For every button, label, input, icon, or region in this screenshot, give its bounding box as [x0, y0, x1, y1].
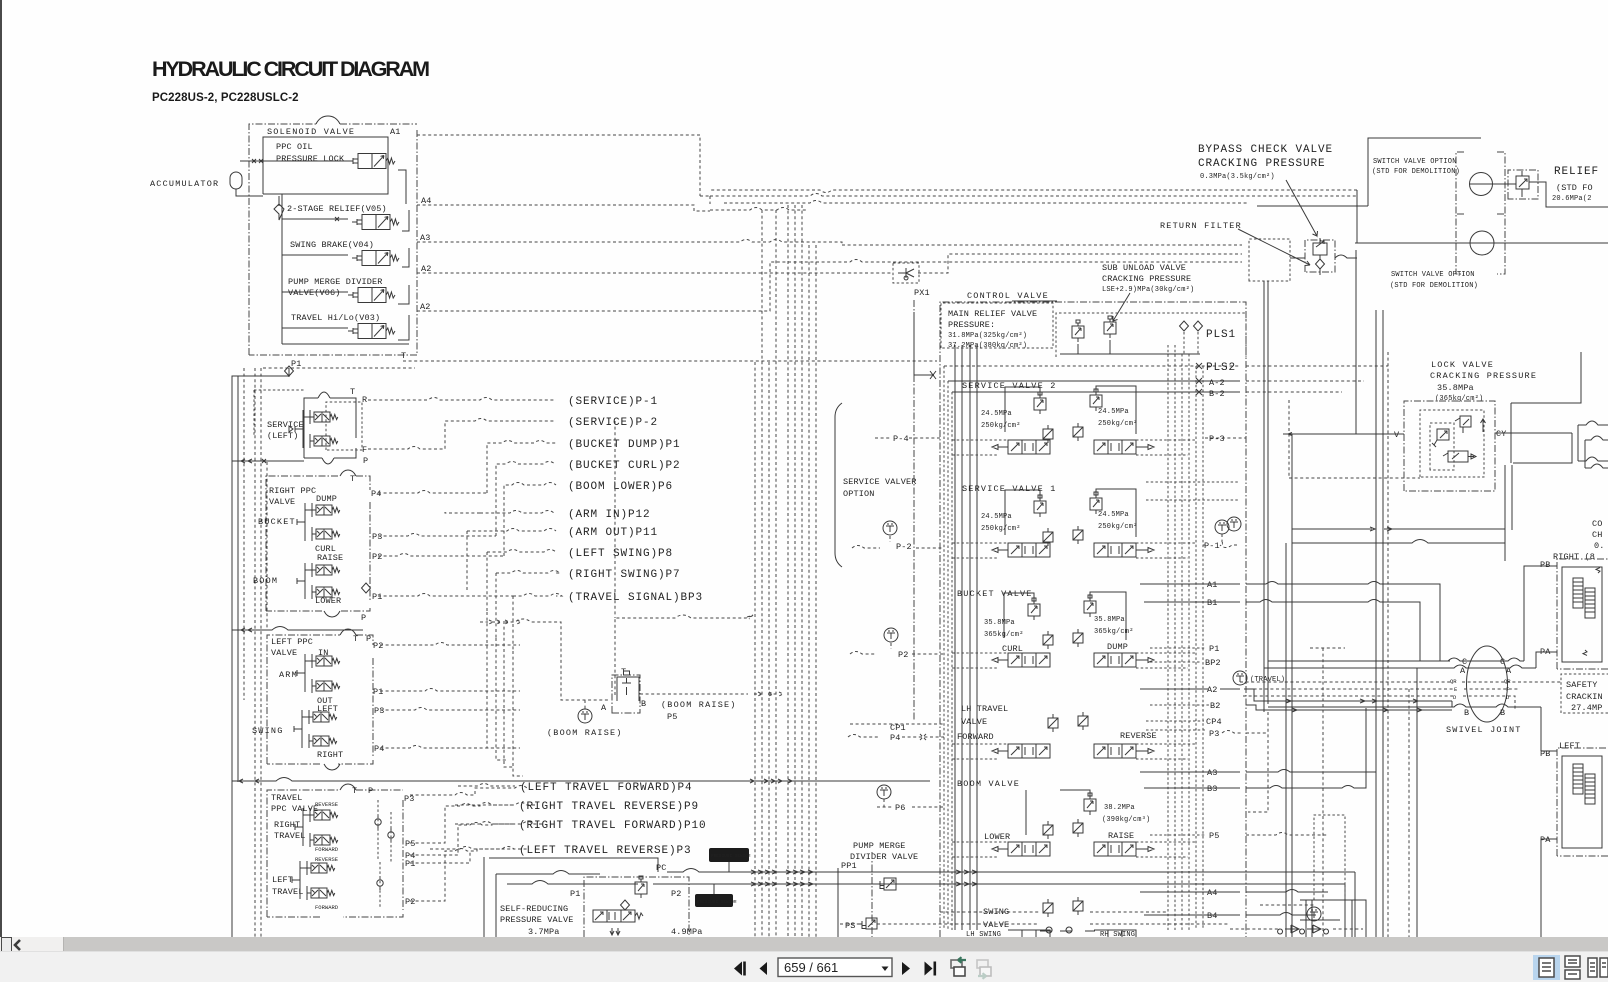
- svg-text:LEFT: LEFT: [1559, 741, 1580, 751]
- svg-text:REVERSE: REVERSE: [315, 801, 339, 808]
- svg-text:PRESSURE LOCK: PRESSURE LOCK: [276, 154, 345, 164]
- wire boom raise top lead: [615, 615, 753, 695]
- lock valve assembly: [1394, 401, 1507, 491]
- page number combobox: [778, 958, 892, 977]
- wire left swing staircase: [487, 550, 556, 613]
- wire swivel lines: [1268, 566, 1557, 661]
- ppc pair bucket curl: [312, 527, 340, 541]
- svg-text:P: P: [366, 634, 371, 644]
- svg-text:D: D: [1506, 694, 1510, 701]
- svg-text:R: R: [362, 395, 367, 405]
- lever arm: [297, 654, 312, 692]
- svg-text:DUMP: DUMP: [316, 494, 337, 504]
- svg-text:CO: CO: [1592, 519, 1603, 529]
- svg-text:P6: P6: [895, 803, 906, 813]
- svg-text:PX1: PX1: [914, 288, 930, 298]
- horizontal scrollbar: [0, 937, 1608, 951]
- wire CP1 lead: [850, 723, 944, 725]
- svg-text:CRACKIN: CRACKIN: [1566, 692, 1603, 702]
- svg-text:F: F: [362, 445, 367, 455]
- continuous layout icon: [1565, 956, 1580, 979]
- svg-text:BYPASS CHECK VALVE: BYPASS CHECK VALVE: [1198, 144, 1333, 156]
- bypass check valve note: [1198, 144, 1333, 236]
- svg-text:(BUCKET DUMP)P1: (BUCKET DUMP)P1: [568, 439, 681, 451]
- svg-text:LH TRAVEL: LH TRAVEL: [961, 704, 1008, 714]
- svg-text:4.9MPa: 4.9MPa: [671, 927, 703, 937]
- svg-text:TRAVEL Hi/Lo(V03): TRAVEL Hi/Lo(V03): [291, 313, 380, 323]
- svg-text:(BOOM RAISE): (BOOM RAISE): [661, 700, 737, 710]
- svg-text:LSE+2.9)MPa(30kg/cm²): LSE+2.9)MPa(30kg/cm²): [1102, 286, 1194, 294]
- svg-text:RIGHT PPC: RIGHT PPC: [269, 486, 316, 496]
- svg-text:RETURN FILTER: RETURN FILTER: [1160, 221, 1242, 231]
- svg-text:T: T: [350, 387, 355, 397]
- ppc pair right travel rev: [310, 808, 338, 822]
- unload valve cluster: [1056, 313, 1246, 357]
- accumulator: [150, 172, 263, 196]
- svg-text:TRAVEL: TRAVEL: [274, 831, 306, 841]
- svg-text:T: T: [350, 474, 355, 484]
- svg-text:LEFT: LEFT: [272, 875, 293, 885]
- svg-text:SERVICE VALVER: SERVICE VALVER: [843, 477, 917, 487]
- svg-text:FORWARD: FORWARD: [315, 904, 339, 911]
- svg-text:VALVE(V06): VALVE(V06): [288, 288, 341, 298]
- solenoid valve V07 PPC oil pressure lock: [348, 154, 395, 169]
- svg-text:(ARM IN)P12: (ARM IN)P12: [568, 509, 651, 521]
- valve on A2 line: [893, 263, 919, 283]
- svg-text:PLS2: PLS2: [1206, 362, 1236, 374]
- svg-text:(SERVICE)P-2: (SERVICE)P-2: [568, 417, 658, 429]
- svg-text:CY: CY: [1496, 429, 1507, 439]
- svg-text:PRESSURE SENSOR: PRESSURE SENSOR: [697, 900, 737, 905]
- wire bottom cluster to right: [1244, 689, 1376, 788]
- wire left travel fwd lead: [458, 784, 515, 787]
- svg-text:(STD FOR DEMOLITION): (STD FOR DEMOLITION): [1390, 282, 1478, 290]
- svg-text:P2: P2: [671, 889, 682, 899]
- svg-text:QR: QR: [1450, 678, 1457, 685]
- wire T bus: [263, 361, 937, 368]
- wire left travel rev lead: [430, 847, 515, 850]
- wire travel P4 lead: [410, 822, 544, 856]
- wire verticals to bottom right: [1408, 689, 1410, 937]
- svg-text:31.8MPa(325kg/cm²): 31.8MPa(325kg/cm²): [948, 332, 1027, 340]
- switch valve option 2: [1355, 214, 1608, 290]
- svg-text:P4: P4: [374, 744, 385, 754]
- wire valve outputs to port column: [282, 170, 409, 344]
- wire right travel rev lead: [455, 803, 515, 806]
- wire boom lower staircase: [504, 483, 556, 557]
- wire left ppc P3 lead: [380, 708, 520, 711]
- wire top right verticals: [1264, 190, 1383, 937]
- svg-text:CP4: CP4: [1206, 717, 1222, 727]
- svg-text:PB: PB: [1540, 749, 1551, 759]
- wire travel P1 lead: [410, 851, 470, 863]
- svg-text:SWING BRAKE(V04): SWING BRAKE(V04): [290, 240, 374, 250]
- lock valve note: [1430, 360, 1537, 403]
- svg-text:A3: A3: [1207, 768, 1218, 778]
- svg-text:LOCK VALVE: LOCK VALVE: [1431, 360, 1494, 370]
- wire solenoid internal rail: [282, 194, 348, 344]
- svg-text:RAISE: RAISE: [317, 553, 343, 563]
- lever service left: [289, 410, 310, 448]
- svg-text:P5: P5: [1209, 831, 1220, 841]
- svg-text:PC228US-2, PC228USLC-2: PC228US-2, PC228USLC-2: [152, 92, 299, 104]
- svg-text:SOLENOID VALVE: SOLENOID VALVE: [267, 127, 355, 137]
- svg-text:MAIN RELIEF VALVE: MAIN RELIEF VALVE: [948, 309, 1037, 319]
- node CO CH cut labels: [1592, 519, 1605, 551]
- service valve 1: [962, 484, 1154, 557]
- previous view icon: [951, 957, 966, 976]
- svg-text:RIGHT (8: RIGHT (8: [1553, 552, 1595, 562]
- svg-text:(RIGHT SWING)P7: (RIGHT SWING)P7: [568, 569, 681, 581]
- svg-text:P-3: P-3: [1209, 434, 1225, 444]
- svg-text:B2: B2: [1210, 701, 1221, 711]
- svg-text:LOWER: LOWER: [984, 832, 1010, 842]
- svg-text:24.5MPa: 24.5MPa: [1098, 511, 1129, 519]
- svg-text:2-STAGE RELIEF(V05): 2-STAGE RELIEF(V05): [287, 204, 387, 214]
- check diamond P1: [285, 366, 294, 376]
- svg-text:DUMP: DUMP: [1107, 642, 1128, 652]
- wire P-3 port: [1205, 437, 1246, 439]
- svg-text:(RIGHT TRAVEL REVERSE)P9: (RIGHT TRAVEL REVERSE)P9: [519, 801, 699, 813]
- svg-text:(STD FOR DEMOLITION): (STD FOR DEMOLITION): [1372, 168, 1460, 176]
- safety valve note: [1561, 674, 1608, 713]
- solenoid valve V06: [348, 288, 395, 303]
- svg-text:P4: P4: [890, 733, 901, 743]
- svg-text:B: B: [641, 699, 646, 709]
- wire P bus lower: [232, 778, 930, 784]
- svg-text:(365kg/cm²): (365kg/cm²): [1435, 395, 1483, 403]
- svg-text:CONTROL VALVE: CONTROL VALVE: [967, 291, 1049, 301]
- wire P3 lead: [378, 534, 496, 537]
- svg-text:PRESSURE:: PRESSURE:: [948, 320, 995, 330]
- wire A2 B2 long extensions: [1246, 689, 1452, 707]
- wire A1 line: [417, 135, 710, 204]
- wire arm out staircase: [467, 529, 556, 592]
- right PPC valve box: [253, 470, 383, 623]
- wire left ppc P2 lead: [380, 643, 520, 646]
- svg-text:250kg/cm²: 250kg/cm²: [981, 525, 1021, 533]
- wire PLS2: [944, 365, 1240, 367]
- wire bucket dump staircase: [487, 441, 556, 494]
- svg-text:(RIGHT TRAVEL FORWARD)P10: (RIGHT TRAVEL FORWARD)P10: [519, 820, 707, 832]
- wire P1 rail left: [232, 368, 289, 937]
- svg-text:P1: P1: [405, 859, 416, 869]
- LH travel valve: [957, 704, 1157, 758]
- svg-text:SWING: SWING: [252, 726, 284, 736]
- svg-text:LEFT PPC: LEFT PPC: [271, 637, 313, 647]
- svg-text:365kg/cm²: 365kg/cm²: [1094, 628, 1134, 636]
- control valve internal rails right: [1168, 345, 1203, 930]
- wire A1 B1 lines to right: [1246, 582, 1450, 669]
- svg-text:24.5MPa: 24.5MPa: [981, 513, 1012, 521]
- svg-text:(TRAVEL SIGNAL)BP3: (TRAVEL SIGNAL)BP3: [568, 592, 703, 604]
- prev page button: [760, 962, 768, 975]
- svg-text:35.8MPa: 35.8MPa: [984, 619, 1015, 627]
- left rail solid 2: [237, 376, 239, 782]
- svg-text:35.8MPa: 35.8MPa: [1437, 383, 1474, 393]
- ppc pair bucket dump: [312, 503, 340, 517]
- svg-text:ARM: ARM: [279, 670, 298, 680]
- svg-text:250kg/cm²: 250kg/cm²: [1098, 420, 1138, 428]
- svg-text:PP1: PP1: [841, 861, 857, 871]
- svg-text:V: V: [1394, 430, 1400, 440]
- svg-text:0.: 0.: [1594, 541, 1605, 551]
- svg-text:(STD FO: (STD FO: [1556, 183, 1593, 193]
- svg-text:P2: P2: [405, 897, 416, 907]
- svg-text:(BOOM RAISE): (BOOM RAISE): [547, 728, 623, 738]
- svg-text:BOOM VALVE: BOOM VALVE: [957, 779, 1020, 789]
- svg-text:P-1': P-1': [1204, 541, 1225, 551]
- boom raise pilot valve: [601, 667, 646, 713]
- wire right port row leads: [1146, 482, 1240, 835]
- wire PLS2 A-2 B-2 right extensions: [1246, 366, 1388, 392]
- lever swing: [294, 710, 309, 748]
- svg-text:P: P: [361, 613, 366, 623]
- ppc pair boom raise: [312, 563, 340, 577]
- svg-text:P5: P5: [405, 839, 416, 849]
- lever right travel: [295, 808, 310, 846]
- svg-text:BUCKET: BUCKET: [258, 517, 296, 527]
- wire service P-1 lead: [368, 398, 556, 401]
- boom valve: [957, 779, 1154, 856]
- relief valve std demolition: [1493, 166, 1608, 207]
- svg-text:35.8MPa: 35.8MPa: [1094, 616, 1125, 624]
- left rail dashed lines: [243, 368, 245, 700]
- wire service P-2 lead: [368, 419, 556, 450]
- swing valve: [966, 897, 1136, 939]
- svg-text:A: A: [601, 703, 607, 713]
- svg-text:CRACKING PRESSURE: CRACKING PRESSURE: [1102, 274, 1191, 284]
- svg-text:SERVICE VALVE 2: SERVICE VALVE 2: [962, 381, 1057, 391]
- solenoid valve assembly box: [249, 116, 417, 355]
- right travel motor: [1540, 552, 1608, 669]
- wire A-2: [948, 378, 1240, 384]
- sub unload valve note: [1102, 263, 1194, 321]
- svg-text:(BUCKET CURL)P2: (BUCKET CURL)P2: [568, 460, 681, 472]
- svg-text:P: P: [363, 456, 368, 466]
- svg-text:PB: PB: [1540, 560, 1551, 570]
- wire travel signal staircase: [513, 594, 562, 652]
- wire bucket curl staircase: [496, 462, 556, 537]
- svg-text:HYDRAULIC CIRCUIT DIAGRAM: HYDRAULIC CIRCUIT DIAGRAM: [152, 57, 429, 81]
- svg-text:BUCKET VALVE: BUCKET VALVE: [957, 589, 1033, 599]
- check diamond P1 right ppc: [362, 583, 371, 593]
- svg-text:FORWARD: FORWARD: [957, 732, 994, 742]
- tank symbol boom raise: [578, 709, 592, 723]
- wire swing pilot bottom: [940, 911, 1168, 913]
- ppc pair boom lower: [312, 585, 340, 599]
- service left PPC valve box: [267, 387, 368, 466]
- svg-text:P1: P1: [1209, 644, 1220, 654]
- wire service feed: [232, 459, 304, 463]
- svg-text:P4: P4: [371, 489, 382, 499]
- service valve 2: [962, 381, 1154, 454]
- svg-text:P1: P1: [570, 889, 581, 899]
- svg-text:20.6MPa(2: 20.6MPa(2: [1552, 195, 1592, 203]
- svg-text:SWITCH VALVE OPTION: SWITCH VALVE OPTION: [1391, 271, 1475, 279]
- shuttle valves travel ppc: [375, 815, 381, 829]
- wire service P-2 drop: [614, 421, 616, 618]
- wire right edge connectors at CY: [1505, 352, 1581, 530]
- sidebar toggle icon: [1, 937, 12, 952]
- svg-text:365kg/cm²: 365kg/cm²: [984, 631, 1024, 639]
- next view icon disabled: [977, 960, 991, 979]
- wire vertical cluster C: [755, 210, 776, 937]
- check valve 2-stage relief inlet: [274, 196, 284, 220]
- svg-text:A1: A1: [1207, 580, 1218, 590]
- svg-text:FORWARD: FORWARD: [315, 846, 339, 853]
- wire P4 lead: [378, 491, 487, 494]
- pump merge valve symbol 1: [875, 878, 896, 890]
- last page button: [925, 962, 933, 976]
- solenoid valve V04: [352, 251, 399, 266]
- svg-text:P2: P2: [898, 650, 909, 660]
- svg-text:(ARM OUT)P11: (ARM OUT)P11: [568, 527, 658, 539]
- wire lock valve main line: [1283, 433, 1572, 436]
- svg-text:37.2MPa(380kg/cm²): 37.2MPa(380kg/cm²): [948, 342, 1027, 350]
- svg-text:VALVE: VALVE: [269, 497, 295, 507]
- svg-text:P2: P2: [373, 641, 384, 651]
- wire boom raise left lead: [480, 619, 608, 709]
- svg-text:CRACKING PRESSURE: CRACKING PRESSURE: [1198, 158, 1326, 170]
- bypass check valve assembly: [1290, 238, 1357, 275]
- svg-text:(LEFT): (LEFT): [267, 431, 299, 441]
- wire top pair to return filter: [710, 190, 1357, 203]
- wire travel P3 lead: [410, 786, 527, 796]
- ppc pair swing right: [309, 734, 337, 748]
- wire travel P5 lead: [410, 803, 535, 844]
- svg-text:T: T: [401, 351, 406, 361]
- wire left ppc P1 lead: [380, 689, 520, 692]
- bottom right valve cluster: [1230, 925, 1363, 934]
- svg-text:VALVE: VALVE: [961, 717, 987, 727]
- wire right swing staircase: [496, 571, 560, 639]
- svg-text:RAISE: RAISE: [1108, 831, 1134, 841]
- svg-text:REVERSE: REVERSE: [315, 856, 339, 863]
- travel PPC valve box: [267, 784, 416, 917]
- svg-text:REVERSE: REVERSE: [1120, 731, 1157, 741]
- svg-text:P5: P5: [667, 712, 678, 722]
- svg-text:VALVE: VALVE: [983, 920, 1009, 930]
- svg-text:B4: B4: [1207, 911, 1218, 921]
- svg-text:(LEFT TRAVEL REVERSE)P3: (LEFT TRAVEL REVERSE)P3: [519, 845, 692, 857]
- svg-text:P-2: P-2: [896, 542, 912, 552]
- svg-text:P: P: [368, 786, 373, 796]
- svg-text:38.2MPa: 38.2MPa: [1104, 804, 1135, 812]
- tank symbol P-1 right: [1215, 520, 1229, 534]
- wire arm in lead: [445, 511, 556, 514]
- control valve outer box: [914, 288, 1246, 937]
- wire A2 bus: [417, 254, 1242, 273]
- svg-text:3.7MPa: 3.7MPa: [528, 927, 560, 937]
- solenoid valve V03: [348, 324, 395, 339]
- svg-text:B-2: B-2: [1209, 389, 1225, 399]
- single page layout icon selected: [1533, 955, 1560, 980]
- left travel motor: [1540, 741, 1608, 937]
- svg-text:OPTION: OPTION: [843, 489, 875, 499]
- svg-text:P3: P3: [1209, 729, 1220, 739]
- svg-text:B: B: [1500, 708, 1505, 718]
- return filter note: [1160, 221, 1310, 266]
- service valve option bracket: [835, 403, 917, 567]
- svg-text:CP1: CP1: [890, 723, 906, 733]
- svg-text:PS: PS: [845, 921, 856, 931]
- svg-text:PLS1: PLS1: [1206, 329, 1236, 341]
- svg-text:D: D: [1453, 694, 1457, 701]
- svg-text:RIGHT: RIGHT: [317, 750, 343, 760]
- svg-text:P2: P2: [372, 552, 383, 562]
- svg-text:TRAVEL: TRAVEL: [271, 793, 303, 803]
- pressure sensor badge 2: [695, 884, 737, 907]
- wire vertical cluster D: [788, 205, 816, 937]
- svg-text:BOOM: BOOM: [253, 576, 278, 586]
- tank symbol P2 left: [884, 628, 898, 642]
- switch valve option 1: [1257, 138, 1505, 214]
- tank symbol left of CO lines: [1227, 517, 1241, 531]
- svg-text:PPC OIL: PPC OIL: [276, 142, 313, 152]
- svg-text:SWIVEL JOINT: SWIVEL JOINT: [1446, 725, 1522, 735]
- wire solenoid inlet: [240, 159, 348, 163]
- svg-text:BP2: BP2: [1205, 658, 1221, 668]
- svg-text:250kg/cm²: 250kg/cm²: [1098, 523, 1138, 531]
- wire A2 lower bus: [417, 260, 1242, 312]
- svg-text:(BOOM LOWER)P6: (BOOM LOWER)P6: [568, 481, 673, 493]
- dashed pilot box service: [254, 390, 304, 437]
- ppc valve pair service left: [310, 410, 338, 424]
- svg-text:SWITCH VALVE OPTION: SWITCH VALVE OPTION: [1373, 158, 1457, 166]
- wire right travel fwd lead: [455, 822, 515, 825]
- two page layout icon: [1588, 958, 1608, 977]
- lever boom: [297, 563, 312, 599]
- svg-text:P1: P1: [373, 687, 384, 697]
- main relief valve pressure note box: [941, 303, 1053, 350]
- wire P bus from right ppc: [232, 627, 363, 633]
- svg-text:24.5MPa: 24.5MPa: [1098, 408, 1129, 416]
- svg-text:0.3MPa(3.5kg/cm²): 0.3MPa(3.5kg/cm²): [1200, 173, 1275, 181]
- wire P1 lead: [378, 594, 513, 597]
- svg-text:P-4: P-4: [893, 434, 909, 444]
- svg-text:P1: P1: [372, 592, 383, 602]
- svg-text:A1: A1: [390, 127, 401, 137]
- wire A3 bus: [417, 240, 1242, 246]
- svg-text:SELF-REDUCING: SELF-REDUCING: [500, 904, 568, 914]
- svg-text:(SERVICE)P-1: (SERVICE)P-1: [568, 396, 658, 408]
- ppc pair arm in: [312, 654, 340, 668]
- pressure sensor badge 1: [709, 848, 751, 872]
- tank symbol P6: [877, 785, 891, 799]
- tank symbol P-2: [883, 521, 897, 535]
- pump merge valve symbol 2: [840, 918, 1230, 931]
- svg-text:CRACKING PRESSURE: CRACKING PRESSURE: [1430, 371, 1537, 381]
- return filter dashed box: [1249, 239, 1290, 281]
- ppc pair left travel fwd: [307, 886, 335, 900]
- swivel joint: [1446, 646, 1522, 735]
- left PPC valve box: [252, 629, 385, 770]
- svg-text:VALVE: VALVE: [271, 648, 297, 658]
- svg-text:TRAVEL: TRAVEL: [272, 887, 304, 897]
- svg-text:PA: PA: [1540, 835, 1551, 845]
- ppc pair arm out: [312, 679, 340, 693]
- wire control valve port nets: [952, 440, 1196, 857]
- control valve internal rails left: [955, 345, 977, 930]
- svg-text:T: T: [352, 786, 357, 796]
- svg-text:A4: A4: [1207, 888, 1218, 898]
- wire boom raise right lead: [640, 692, 783, 696]
- ppc pair swing left: [309, 710, 337, 724]
- wire travel P2 lead: [410, 847, 529, 902]
- svg-text:27.4MP: 27.4MP: [1571, 703, 1603, 713]
- lever bucket: [297, 503, 312, 541]
